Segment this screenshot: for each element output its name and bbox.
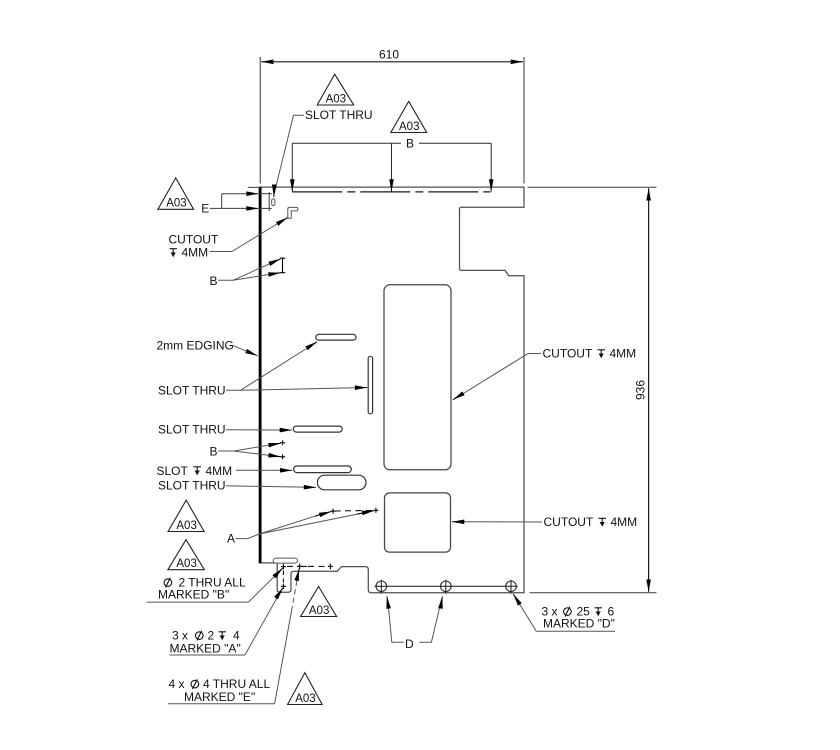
leader B lower: [218, 443, 280, 451]
svg-text:A03: A03: [176, 558, 196, 570]
svg-text:B: B: [210, 445, 218, 459]
slot S7 tiny vertical slot at top-left corner: [272, 199, 275, 206]
svg-text:SLOT THRU: SLOT THRU: [158, 479, 226, 493]
leader cutout right upper: [456, 354, 541, 399]
svg-text:D: D: [405, 637, 414, 651]
leader slot thru top: [274, 115, 304, 193]
slot S4 pill: [294, 466, 352, 473]
triangle A03 T5: [168, 540, 205, 570]
svg-text:SLOT THRU: SLOT THRU: [158, 423, 226, 437]
svg-text:4MM: 4MM: [182, 246, 209, 260]
dimension 936: [528, 187, 657, 593]
svg-text:MARKED "A": MARKED "A": [170, 642, 241, 656]
big cutout 4mm: [384, 285, 451, 470]
triangle A03 T4: [168, 500, 204, 532]
svg-text:4 THRU ALL: 4 THRU ALL: [203, 677, 270, 691]
label dia2 thru all marked B: [164, 578, 172, 588]
leader to S3: [226, 429, 292, 431]
svg-text:A03: A03: [309, 605, 329, 617]
leader marked D: [516, 598, 537, 632]
L-shaped cutout 4mm top-left: [288, 207, 298, 218]
leader D left: [388, 600, 404, 643]
dashed A holes line: [335, 509, 375, 512]
svg-text:E: E: [201, 202, 209, 216]
svg-text:3 x: 3 x: [172, 629, 188, 643]
svg-text:4: 4: [233, 629, 240, 643]
slot S1 pill: [316, 334, 356, 340]
svg-text:4MM: 4MM: [206, 464, 233, 478]
svg-text:CUTOUT: CUTOUT: [169, 233, 219, 247]
triangle A03 T6: [301, 587, 337, 617]
triangle A03 T1: [317, 74, 354, 105]
slot S3 pill: [293, 426, 342, 432]
leader cutout right lower: [463, 521, 542, 523]
leader to S4: [236, 469, 292, 471]
small cutout 4mm: [385, 493, 451, 552]
slot S2 vertical: [368, 356, 372, 414]
triangle A03 T7: [288, 673, 323, 705]
slot S5 big pill: [317, 475, 366, 490]
bolt hole D2: [441, 581, 452, 592]
B lower cross marks: [280, 440, 285, 459]
leader 2mm edging: [233, 345, 258, 356]
svg-text:2: 2: [208, 629, 215, 643]
triangle A03 T2: [391, 101, 427, 133]
bolt hole D3: [506, 581, 517, 592]
svg-text:B: B: [406, 137, 414, 151]
svg-text:A03: A03: [326, 94, 346, 106]
leader marked B: [248, 568, 282, 602]
svg-text:MARKED "D": MARKED "D": [543, 617, 615, 631]
panel outline: [261, 187, 524, 593]
underline B label: [146, 601, 248, 603]
B upper tick marks: [280, 258, 285, 273]
triangle A03 T3: [158, 178, 194, 210]
svg-text:CUTOUT: CUTOUT: [544, 515, 594, 529]
svg-text:4MM: 4MM: [610, 347, 637, 361]
dimension B bracket: [292, 143, 491, 181]
leader to S5: [226, 486, 316, 488]
svg-text:CUTOUT: CUTOUT: [543, 347, 593, 361]
dashed horizontal E line: [287, 565, 327, 567]
svg-text:610: 610: [379, 48, 399, 62]
svg-text:A: A: [227, 532, 235, 546]
svg-text:SLOT THRU: SLOT THRU: [158, 384, 226, 398]
svg-text:MARKED "B": MARKED "B": [158, 588, 229, 602]
svg-text:4 x: 4 x: [169, 677, 185, 691]
svg-text:2mm EDGING: 2mm EDGING: [157, 339, 234, 353]
svg-text:SLOT THRU: SLOT THRU: [305, 108, 373, 122]
svg-text:MARKED "E": MARKED "E": [184, 690, 255, 704]
bottom-left hidden hole marks: [281, 564, 333, 589]
2mm edging thick left edge: [259, 187, 262, 564]
leader cutout top-left: [210, 219, 287, 252]
svg-text:A03: A03: [295, 693, 315, 705]
leader A: [236, 514, 323, 539]
bolt hole D1: [376, 581, 387, 592]
dimension 610: [260, 57, 524, 184]
leader marked E: [275, 611, 292, 704]
leader D right: [419, 600, 441, 643]
leader B upper: [218, 259, 280, 280]
svg-text:B: B: [210, 274, 218, 288]
top edge overshoot left of corner: [248, 186, 260, 188]
svg-text:A03: A03: [399, 121, 419, 133]
A hole cross 1: [331, 508, 379, 514]
dashed vertical A line: [282, 571, 284, 583]
hidden slot dash-dot line along top edge: [292, 191, 490, 193]
svg-text:A03: A03: [176, 520, 196, 532]
leader to S1 and S2: [226, 343, 316, 391]
leader marked A: [245, 590, 282, 656]
svg-text:4MM: 4MM: [611, 515, 638, 529]
svg-text:936: 936: [634, 380, 648, 400]
svg-text:SLOT: SLOT: [157, 464, 189, 478]
slot S6 bottom edge pill: [273, 558, 297, 563]
edging end rectangle top-left: [259, 192, 272, 211]
bolt holes center lines: [375, 580, 518, 594]
svg-text:A03: A03: [166, 198, 186, 210]
